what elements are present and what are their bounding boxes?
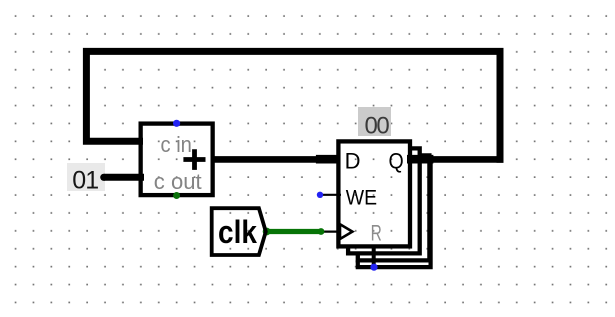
svg-text:c out: c out [154, 169, 202, 194]
node: unconnected c in pin (blue) [173, 120, 180, 127]
wire: clk green wire [267, 229, 322, 234]
wire: adder sum output to register D input [211, 156, 322, 163]
svg-text:00: 00 [365, 113, 390, 140]
svg-text:01: 01 [72, 166, 98, 194]
register D pin stub [316, 155, 340, 164]
svg-text:Q: Q [389, 148, 404, 173]
value label 01 constant [67, 163, 105, 191]
adder U1 body [141, 124, 213, 196]
svg-text:D: D [345, 148, 361, 173]
value label 00 on register [358, 107, 391, 136]
svg-text:c in: c in [161, 132, 192, 157]
node: junction on R rail (blue) [370, 264, 377, 271]
svg-text:clk: clk [218, 214, 257, 251]
node: unconnected WE pin (blue) [317, 192, 323, 198]
node: green wire end [318, 228, 325, 235]
wire: WE input stub [321, 194, 342, 196]
wire: register Q output to feedback riser [408, 156, 503, 163]
wire: R pin stub down to rail [372, 245, 376, 267]
wire: constant 01 to adder input b [104, 174, 144, 181]
clk input port shape [212, 208, 266, 255]
wire: feedback loop from Q output up over the top to adder input a [86, 51, 500, 162]
register U2 stack layer 2 [348, 148, 420, 253]
wire: clock stub into register [321, 231, 341, 233]
adder plus symbol [183, 149, 205, 170]
svg-text:WE: WE [346, 186, 377, 210]
node: unconnected c out pin (green) [173, 192, 180, 199]
wire: Q output redrawn over stack corners [407, 155, 433, 164]
register U2 stack layer 3 (back) [358, 155, 430, 260]
svg-text:R: R [371, 220, 382, 245]
clock edge triangle on register [340, 224, 352, 239]
wire: R rail wrapping under the stack up to Q side [358, 162, 431, 267]
node: rounded end cap at constant 01 [100, 174, 107, 181]
register U2 body [338, 141, 410, 246]
node: green wire start [263, 228, 271, 236]
